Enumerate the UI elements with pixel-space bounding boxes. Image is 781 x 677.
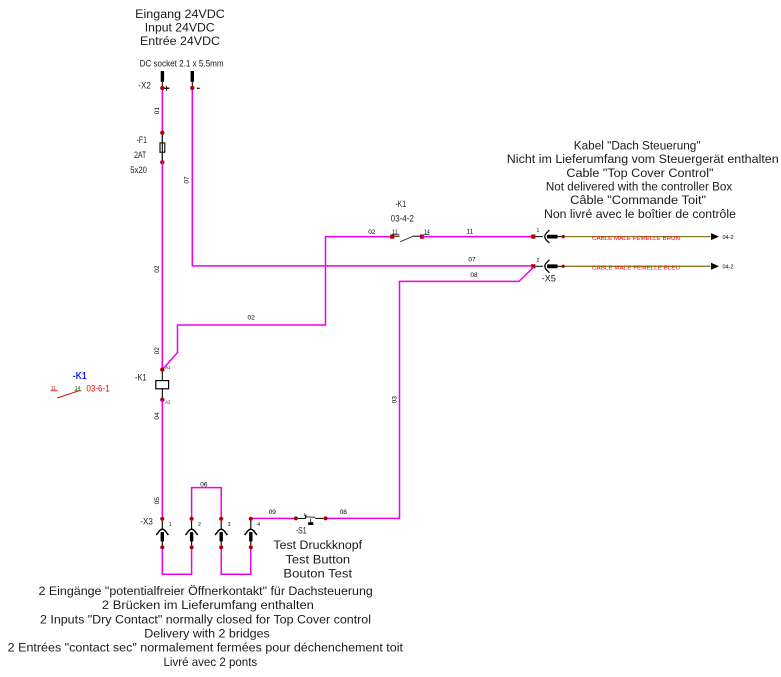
svg-text:Test Button: Test Button xyxy=(285,552,350,566)
wire 07: X2 pin2 down and right to X5 pin 2 xyxy=(192,88,531,266)
svg-text:Livré avec 2 ponts: Livré avec 2 ponts xyxy=(164,655,258,669)
svg-text:-F1: -F1 xyxy=(137,134,147,145)
wire cable bleu xyxy=(565,265,711,267)
terminal -X2 pin 1 xyxy=(161,71,170,91)
wire 08: X5 pin2 down to S1 xyxy=(327,268,534,519)
bridge wire 06: X3 pin2 to pin3 xyxy=(192,488,222,519)
svg-text:07: 07 xyxy=(468,257,476,264)
svg-text:Cable "Top Cover Control": Cable "Top Cover Control" xyxy=(566,166,713,180)
svg-text:A2: A2 xyxy=(165,400,171,405)
svg-text:Delivery with 2 bridges: Delivery with 2 bridges xyxy=(144,626,269,640)
svg-text:CABLE MALE FEMELLE BRUN: CABLE MALE FEMELLE BRUN xyxy=(592,236,680,242)
note: Eingang 24VDC text block xyxy=(135,7,225,48)
svg-text:2 Entrées "contact sec" normal: 2 Entrées "contact sec" normalement ferm… xyxy=(8,641,404,655)
wire 04: coil A2 down to X3 pin 1 xyxy=(161,400,163,519)
off-page arrow 04-2 (bottom) xyxy=(711,263,719,270)
svg-text:08: 08 xyxy=(340,509,348,516)
svg-text:04: 04 xyxy=(154,412,161,420)
terminal -X2 pin 2 xyxy=(191,71,200,88)
junction dot S1 right xyxy=(324,516,328,520)
svg-text:3: 3 xyxy=(228,522,231,528)
contact K1 (NO contact 11-14) xyxy=(392,229,430,241)
svg-text:-X2: -X2 xyxy=(138,80,151,91)
connector X3 pin 4 xyxy=(245,517,261,550)
svg-text:2 Inputs "Dry Contact" normall: 2 Inputs "Dry Contact" normally closed f… xyxy=(40,613,371,627)
wire 09: X3 pin4 to S1 xyxy=(251,517,295,519)
svg-text:09: 09 xyxy=(269,509,277,516)
svg-text:-X5: -X5 xyxy=(542,272,556,283)
svg-text:DC socket 2.1 x 5.5mm: DC socket 2.1 x 5.5mm xyxy=(140,59,224,69)
svg-text:-K1: -K1 xyxy=(395,198,406,209)
svg-text:05: 05 xyxy=(154,497,161,505)
wire 02: fuse to relay coil A1 xyxy=(161,162,163,369)
svg-text:06: 06 xyxy=(200,481,208,488)
svg-text:1: 1 xyxy=(169,522,172,528)
svg-text:04-2: 04-2 xyxy=(723,235,734,241)
svg-text:Non livré avec le boîtier de c: Non livré avec le boîtier de contrôle xyxy=(544,207,736,221)
svg-text:-K1: -K1 xyxy=(135,372,147,383)
note: bottom explanation text block xyxy=(8,584,404,669)
junction dot X2 pin1 xyxy=(160,86,164,90)
svg-text:02: 02 xyxy=(368,229,376,236)
svg-text:2AT: 2AT xyxy=(134,149,146,160)
junction dot A1 xyxy=(160,367,164,371)
svg-text:Eingang 24VDC: Eingang 24VDC xyxy=(135,7,225,21)
svg-text:07: 07 xyxy=(184,176,191,184)
svg-text:4: 4 xyxy=(257,522,260,528)
junction dot F1 bottom xyxy=(160,160,164,164)
svg-text:A1: A1 xyxy=(165,365,171,370)
fuse F1 labels xyxy=(130,134,147,175)
svg-text:08: 08 xyxy=(470,272,478,279)
connector X3 pin 1 xyxy=(156,517,172,550)
junction dot contact pin 11 xyxy=(390,235,394,239)
bottom bridge wire: X3 pin3 to pin4 xyxy=(221,549,251,574)
svg-text:2 Eingänge "potentialfreier Öf: 2 Eingänge "potentialfreier Öffnerkontak… xyxy=(39,584,373,598)
svg-text:-K1: -K1 xyxy=(73,371,87,382)
svg-text:Bouton Test: Bouton Test xyxy=(283,567,352,581)
connector X5 pin 1 xyxy=(531,228,565,243)
svg-text:11: 11 xyxy=(466,229,473,236)
connector X3 pin 3 xyxy=(215,517,231,550)
junction dot F1 top xyxy=(160,131,164,135)
svg-text:Câble "Commande Toit": Câble "Commande Toit" xyxy=(570,193,706,207)
svg-text:2 Brücken im Lieferumfang enth: 2 Brücken im Lieferumfang enthalten xyxy=(102,598,314,612)
svg-text:1: 1 xyxy=(537,228,540,234)
contact K1 11/14 cross-ref labels xyxy=(391,198,414,224)
svg-text:Test Druckknopf: Test Druckknopf xyxy=(273,538,362,552)
junction dot X2 pin2 xyxy=(190,86,194,90)
fuse F1 xyxy=(160,133,165,163)
junction dot S1 left xyxy=(294,516,298,520)
svg-text:2: 2 xyxy=(537,258,540,264)
bottom bridge wire: X3 pin1 to pin2 xyxy=(162,549,191,574)
relay K1 cross-reference (blue) xyxy=(51,371,110,398)
svg-text:03: 03 xyxy=(391,396,398,404)
svg-text:Nicht im Lieferumfang vom Steu: Nicht im Lieferumfang vom Steuergerät en… xyxy=(507,152,779,166)
junction dot A2 xyxy=(160,398,164,402)
svg-text:-X3: -X3 xyxy=(140,515,153,526)
svg-text:5x20: 5x20 xyxy=(130,164,147,175)
svg-text:02: 02 xyxy=(154,347,161,355)
svg-text:Kabel "Dach Steuerung": Kabel "Dach Steuerung" xyxy=(574,138,701,152)
svg-text:CABLE MALE FEMELLE BLEU: CABLE MALE FEMELLE BLEU xyxy=(592,266,680,272)
wire 01: X2 pin1 to fuse F1 xyxy=(161,88,163,133)
svg-text:02: 02 xyxy=(248,315,256,322)
svg-text:Input 24VDC: Input 24VDC xyxy=(145,20,215,34)
connector X5 pin 2 xyxy=(531,258,565,273)
svg-text:Not delivered with the control: Not delivered with the controller Box xyxy=(546,179,733,193)
note: Kabel Dach Steuerung text block xyxy=(507,138,779,220)
wire cable brun xyxy=(565,236,711,238)
connector X3 pin 2 xyxy=(186,517,202,550)
svg-text:2: 2 xyxy=(198,522,201,528)
svg-text:03-6-1: 03-6-1 xyxy=(86,382,109,393)
junction dot contact pin 14 xyxy=(420,235,424,239)
off-page arrow 04-2 (top) xyxy=(711,233,719,240)
svg-text:Entrée 24VDC: Entrée 24VDC xyxy=(140,34,220,48)
svg-text:01: 01 xyxy=(154,107,161,115)
wire 11: contact 14 to X5 pin 1 xyxy=(422,236,531,238)
svg-text:-S1: -S1 xyxy=(296,524,307,535)
push button S1 xyxy=(298,512,324,525)
svg-text:03-4-2: 03-4-2 xyxy=(391,212,414,223)
svg-text:02: 02 xyxy=(154,265,161,273)
wire 02 branch: contact 11 to coil A1 xyxy=(163,237,393,370)
note: Test Druckknopf text block xyxy=(273,538,362,580)
relay coil K1 xyxy=(135,365,171,404)
svg-text:04-2: 04-2 xyxy=(723,265,734,271)
